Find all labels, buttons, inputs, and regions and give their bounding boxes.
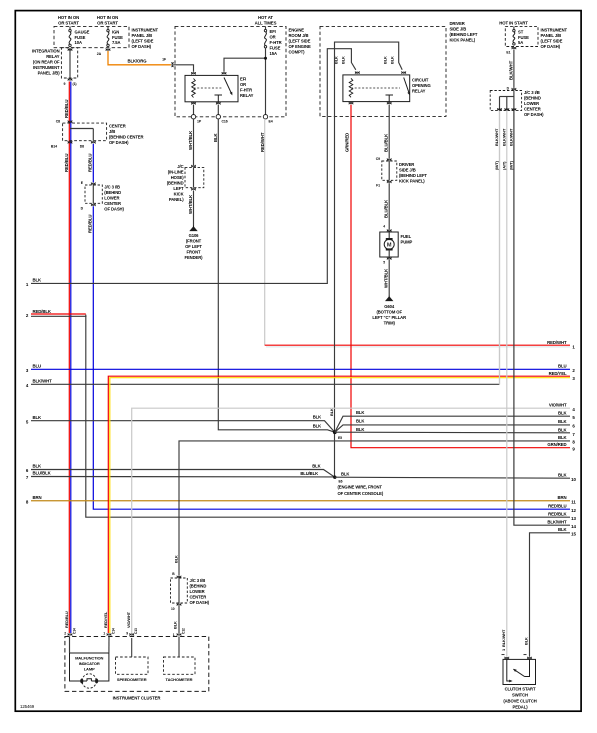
svg-text:FRONT: FRONT bbox=[187, 250, 201, 255]
MIL lamp symbol bbox=[80, 674, 98, 688]
label FUEL PUMP bbox=[401, 234, 413, 245]
svg-text:(BEHIND: (BEHIND bbox=[167, 181, 184, 186]
svg-text:5: 5 bbox=[383, 261, 385, 265]
svg-text:BLK: BLK bbox=[341, 56, 346, 64]
svg-text:OR START: OR START bbox=[58, 21, 79, 26]
svg-text:BLU: BLU bbox=[558, 364, 567, 369]
label G604 (BOTTOM OF LEFT C PILLAR TRIM) bbox=[372, 304, 406, 326]
label 1 BLK/WHT at clutch switch bbox=[501, 629, 506, 651]
wire BLK (splice E6 to right edge wire 10) bbox=[335, 477, 570, 478]
pin connector circuit relay switch bottom bbox=[387, 102, 391, 105]
svg-text:BLK: BLK bbox=[334, 56, 339, 64]
component: clutch start switch box bbox=[503, 659, 536, 684]
label INSTRUMENT PANEL J/B (LEFT SIDE OF DASH) bbox=[132, 28, 159, 50]
svg-text:OF DASH): OF DASH) bbox=[104, 207, 124, 212]
svg-text:PUMP: PUMP bbox=[401, 240, 413, 245]
splice E5 branch to right wire 5 bbox=[335, 416, 570, 432]
svg-text:J/C 3 I/B: J/C 3 I/B bbox=[104, 185, 120, 190]
svg-text:(LEFT SIDE: (LEFT SIDE bbox=[541, 39, 563, 44]
svg-text:INSTRUMENT: INSTRUMENT bbox=[33, 65, 60, 70]
wire VIO/WHT (right edge wire 4 to cluster speedometer) bbox=[132, 408, 570, 633]
svg-text:M: M bbox=[387, 243, 392, 249]
svg-text:RED/YEL: RED/YEL bbox=[549, 371, 567, 376]
right wire 11 BRN terminal bbox=[557, 495, 576, 505]
svg-text:G604: G604 bbox=[384, 304, 395, 309]
svg-text:RED/WHT: RED/WHT bbox=[547, 340, 567, 345]
fuse EFI 15A symbol bbox=[264, 26, 266, 48]
bus inside right J/C bbox=[500, 91, 514, 111]
svg-text:E6: E6 bbox=[339, 480, 343, 484]
pin C9 small J/B top bbox=[376, 157, 392, 161]
svg-text:LOWER: LOWER bbox=[190, 589, 205, 594]
fuel pump motor symbol bbox=[384, 232, 394, 257]
label J/C 3 I/B (BEHIND LOWER CENTER OF DASH) right bbox=[524, 90, 544, 117]
pin E J/C top bbox=[81, 181, 96, 185]
svg-text:BLK: BLK bbox=[33, 278, 43, 283]
connector circle engine J/B bottom 1 bbox=[191, 115, 195, 119]
pin connector cluster tachometer bbox=[177, 628, 186, 636]
ground G106 bbox=[189, 226, 197, 232]
label BLK right wire 6 mid bbox=[356, 419, 364, 424]
label 1 RED/YEL at cluster bbox=[103, 611, 108, 635]
svg-text:SIDE J/B: SIDE J/B bbox=[399, 168, 416, 173]
EFI relay internal dashed link bbox=[194, 87, 223, 89]
svg-text:B14: B14 bbox=[51, 145, 57, 149]
svg-text:ALL TIMES: ALL TIMES bbox=[255, 21, 277, 26]
svg-text:EFI: EFI bbox=[270, 29, 276, 34]
svg-text:TACHOMETER: TACHOMETER bbox=[166, 677, 193, 682]
wire RED/YEL (right edge wire 3 to cluster MIL) bbox=[108, 376, 570, 633]
svg-text:INSTRUMENT: INSTRUMENT bbox=[132, 28, 159, 33]
svg-text:LEFT “C” PILLAR: LEFT “C” PILLAR bbox=[372, 315, 406, 320]
svg-text:BLK: BLK bbox=[356, 410, 364, 415]
svg-text:LOWER: LOWER bbox=[104, 196, 119, 201]
svg-text:(ABOVE CLUTCH: (ABOVE CLUTCH bbox=[503, 699, 536, 704]
label HOT AT ALL TIMES bbox=[255, 15, 277, 25]
svg-text:4: 4 bbox=[383, 225, 385, 229]
svg-text:COMPT): COMPT) bbox=[289, 50, 306, 55]
svg-text:(LEFT SIDE: (LEFT SIDE bbox=[132, 39, 154, 44]
svg-text:BLK/WHT: BLK/WHT bbox=[509, 128, 514, 146]
svg-text:OPENING: OPENING bbox=[412, 83, 431, 88]
wire RED/BLU (center J/B to J/C) bbox=[92, 144, 94, 183]
relay: EFI OR F-HTR RELAY box bbox=[185, 75, 238, 101]
node branch inside center J/B bbox=[70, 129, 93, 141]
svg-text:BLK: BLK bbox=[558, 527, 568, 532]
svg-text:DRIVER: DRIVER bbox=[399, 162, 414, 167]
circuit opening relay switch contact bbox=[386, 78, 412, 102]
junction block: instrument panel J/B (ST fuse) bbox=[505, 26, 538, 46]
label RED/WHT (below EFI fuse) bbox=[260, 132, 265, 152]
svg-text:RED/YEL: RED/YEL bbox=[103, 611, 108, 628]
splice E6 node bbox=[333, 476, 343, 484]
svg-text:RED/BLU: RED/BLU bbox=[64, 154, 69, 172]
pin labels 9 (1) bbox=[64, 82, 77, 86]
wire BLK/WHT (ST fuse to right J/C) bbox=[513, 49, 515, 88]
component: instrument cluster box bbox=[65, 637, 209, 692]
svg-text:ENGINE: ENGINE bbox=[289, 28, 305, 33]
svg-text:(LEFT SIDE: (LEFT SIDE bbox=[289, 39, 311, 44]
label DRIVER SIDE J/B (BEHIND LEFT KICK PANEL) small bbox=[399, 162, 427, 184]
label WHT/BLK (upper) bbox=[188, 130, 193, 150]
svg-text:LEFT: LEFT bbox=[173, 186, 184, 191]
label BLK above A/C J/C bbox=[174, 555, 179, 563]
svg-text:(M/T): (M/T) bbox=[509, 160, 514, 170]
wire BLK feed A (wire1 riser to relay coil) bbox=[327, 49, 356, 117]
svg-text:9: 9 bbox=[64, 82, 66, 86]
svg-text:BLK/WHT: BLK/WHT bbox=[494, 128, 499, 146]
svg-text:GAUGE: GAUGE bbox=[75, 30, 90, 35]
svg-text:OR START: OR START bbox=[97, 21, 118, 26]
svg-text:BLK: BLK bbox=[558, 435, 568, 440]
pin 10 bottom J/C bottom bbox=[171, 603, 181, 611]
svg-text:HOT AT: HOT AT bbox=[258, 15, 273, 20]
svg-text:RED/BLU: RED/BLU bbox=[64, 100, 69, 118]
label CLUTCH START SWITCH (ABOVE CLUTCH PEDAL) bbox=[503, 687, 536, 710]
junction block: engine room J/B bbox=[175, 26, 286, 116]
label EFI OR F-HTR RELAY bbox=[240, 77, 254, 99]
svg-text:C8: C8 bbox=[56, 120, 60, 124]
svg-text:BLK: BLK bbox=[558, 472, 568, 477]
wires pins to MIL box bbox=[70, 637, 110, 654]
svg-text:BLK: BLK bbox=[213, 132, 218, 142]
wire inside small J/B bbox=[388, 161, 390, 180]
svg-text:INSTRUMENT: INSTRUMENT bbox=[541, 28, 568, 33]
svg-text:OF DASH): OF DASH) bbox=[190, 600, 210, 605]
svg-text:BLK: BLK bbox=[33, 415, 43, 420]
EFI relay switch contact bbox=[215, 78, 234, 102]
svg-text:PANEL J/B: PANEL J/B bbox=[132, 33, 153, 38]
wire BLK (J/C to cluster) bbox=[178, 606, 180, 633]
svg-text:5A: 5A bbox=[518, 40, 523, 45]
svg-text:10: 10 bbox=[571, 477, 576, 482]
right wire 1 RED/WHT terminal bbox=[547, 340, 575, 350]
label RED/BLU (upper) bbox=[64, 100, 69, 118]
svg-text:INDICATOR: INDICATOR bbox=[79, 661, 100, 666]
pin connector fuel pump bottom bbox=[383, 257, 391, 264]
svg-text:BLK: BLK bbox=[558, 419, 568, 424]
right wire 12 RED/BLU terminal bbox=[548, 503, 576, 513]
svg-text:PEDAL): PEDAL) bbox=[513, 705, 529, 710]
svg-text:HOSE): HOSE) bbox=[171, 175, 184, 180]
svg-text:HOT IN START: HOT IN START bbox=[499, 21, 528, 26]
svg-text:F-HTR: F-HTR bbox=[270, 40, 282, 45]
svg-text:15A: 15A bbox=[270, 51, 277, 56]
circuit opening relay dashed link bbox=[351, 87, 400, 89]
label J/C 3 I/B (BEHIND LOWER CENTER OF DASH) bbox=[104, 185, 124, 212]
label GRN/RED bbox=[345, 133, 350, 152]
svg-text:BLU/BLK: BLU/BLK bbox=[33, 471, 52, 476]
label HOT IN ON OR START (gauge fuse) bbox=[58, 15, 80, 25]
svg-text:OF CENTER CONSOLE): OF CENTER CONSOLE) bbox=[338, 491, 384, 496]
svg-text:FUSE: FUSE bbox=[518, 35, 529, 40]
svg-text:PANEL): PANEL) bbox=[169, 197, 184, 202]
svg-text:BLK/WHT: BLK/WHT bbox=[547, 519, 567, 524]
svg-text:(IN-LINE: (IN-LINE bbox=[168, 170, 184, 175]
svg-text:MALFUNCTION: MALFUNCTION bbox=[75, 656, 103, 661]
svg-text:CIRCUIT: CIRCUIT bbox=[412, 78, 429, 83]
wire inside J/C bbox=[92, 185, 94, 203]
wire 6 BLK (left edge to splice E6) bbox=[26, 464, 335, 478]
svg-text:BLK/WHT: BLK/WHT bbox=[501, 128, 506, 146]
svg-text:BLK: BLK bbox=[558, 410, 568, 415]
svg-text:BLK/ORG: BLK/ORG bbox=[127, 58, 147, 63]
svg-text:10A: 10A bbox=[75, 40, 82, 45]
svg-text:J/C: J/C bbox=[177, 164, 183, 169]
svg-text:C14: C14 bbox=[112, 628, 116, 634]
wire inside integration relay bbox=[69, 48, 71, 78]
pin connector integration relay output bbox=[68, 78, 72, 81]
relay: circuit opening relay box bbox=[343, 75, 410, 102]
label BLK before splice on wire 6 bbox=[312, 464, 320, 469]
label BLU/BLK (upper) bbox=[384, 133, 389, 152]
svg-text:GRN/RED: GRN/RED bbox=[547, 442, 566, 447]
svg-text:WHT/BLK: WHT/BLK bbox=[188, 194, 193, 214]
svg-text:CENTER: CENTER bbox=[524, 107, 541, 112]
svg-text:J/C 3 I/B: J/C 3 I/B bbox=[190, 578, 206, 583]
svg-text:HOT IN ON: HOT IN ON bbox=[97, 15, 118, 20]
diagram id text bbox=[20, 704, 35, 709]
svg-text:KICK: KICK bbox=[174, 192, 184, 197]
svg-text:RED/BLU: RED/BLU bbox=[88, 154, 93, 172]
label HOT IN START bbox=[499, 21, 528, 26]
svg-text:OF ENGINE: OF ENGINE bbox=[289, 44, 311, 49]
svg-text:BLU: BLU bbox=[33, 364, 42, 369]
svg-text:2A: 2A bbox=[97, 52, 102, 56]
right wire 3 RED/YEL terminal bbox=[549, 371, 576, 381]
junction connector J/C (left, on RED/BLU) bbox=[85, 185, 102, 203]
label 1 BLK at cluster bbox=[173, 621, 178, 637]
svg-text:FUSE: FUSE bbox=[75, 35, 86, 40]
label BLU/BLK before splice E6 bbox=[300, 471, 318, 476]
wire BLK (right edge wire 8 to instrument cluster tachometer) bbox=[179, 441, 570, 576]
svg-text:OF DASH): OF DASH) bbox=[541, 44, 561, 49]
labels BLK/WHT x3 below right J/C bbox=[494, 128, 514, 146]
pin D8 center J/B bottom right bbox=[80, 141, 96, 149]
junction block: driver side J/B bbox=[320, 26, 446, 116]
wire RED/WHT vertical (EFI fuse to corner) bbox=[264, 119, 266, 345]
junction connector driver side J/B (small) bbox=[382, 161, 397, 180]
svg-text:11: 11 bbox=[571, 500, 576, 505]
wire 1 BLK (left edge to circuit opening relay) bbox=[26, 116, 327, 287]
svg-text:D8: D8 bbox=[80, 145, 84, 149]
svg-text:TRIM): TRIM) bbox=[384, 321, 396, 326]
pin connector cluster MIL left bbox=[68, 628, 77, 636]
svg-text:BLK: BLK bbox=[356, 427, 364, 432]
svg-text:RED/BLK: RED/BLK bbox=[33, 309, 52, 314]
svg-text:(BEHIND LEFT: (BEHIND LEFT bbox=[399, 173, 427, 178]
junction connector J/C in-line (behind left kick panel) bbox=[185, 168, 204, 188]
svg-text:RED/BLK: RED/BLK bbox=[548, 511, 567, 516]
pin C8 center J/B top bbox=[56, 120, 72, 124]
wire BLK (EFI relay to splice E5) bbox=[218, 119, 334, 432]
svg-text:OR: OR bbox=[240, 82, 246, 87]
clutch switch internals bbox=[502, 655, 530, 683]
svg-text:(BEHIND: (BEHIND bbox=[524, 96, 541, 101]
svg-text:BLK: BLK bbox=[173, 621, 178, 629]
label BLK above splice E5 bbox=[329, 408, 334, 416]
svg-text:F-HTR: F-HTR bbox=[240, 88, 252, 93]
right wire 5 BLK terminal bbox=[558, 410, 575, 420]
splice E5 branch to right wire 7 bbox=[335, 431, 570, 434]
svg-text:E5: E5 bbox=[338, 436, 342, 440]
svg-text:INTEGRATION: INTEGRATION bbox=[32, 49, 60, 54]
pin connector clutch switch left bbox=[505, 657, 509, 660]
pin connector ign fuse output bbox=[106, 48, 110, 51]
pin connector gauge fuse to integration relay bbox=[68, 48, 72, 51]
wire 2 RED/BLK (left edge to right edge wire 13) bbox=[26, 309, 570, 517]
label IGN FUSE 7.5A bbox=[112, 30, 123, 46]
svg-text:CENTER: CENTER bbox=[104, 201, 121, 206]
pin connector EFI relay coil bottom bbox=[191, 102, 195, 105]
label RED/BLU on left branch bbox=[64, 154, 69, 172]
svg-text:IGN: IGN bbox=[112, 30, 119, 35]
wire EFI fuse to relay and bottom connector bbox=[224, 48, 267, 116]
label BLK/ORG bbox=[127, 58, 147, 63]
pin labels engine J/B bottom bbox=[197, 120, 273, 124]
svg-text:BLK: BLK bbox=[558, 428, 568, 433]
label DRIVER SIDE J/B (BEHIND LEFT KICK PANEL) bbox=[450, 21, 478, 43]
svg-text:(BEHIND LEFT: (BEHIND LEFT bbox=[450, 32, 478, 37]
svg-text:CLUTCH START: CLUTCH START bbox=[505, 687, 536, 692]
wire 3 BLU (left edge to right edge wire 2) bbox=[26, 364, 570, 373]
svg-text:E1: E1 bbox=[506, 51, 510, 55]
pin 2A at ign fuse output bbox=[97, 52, 102, 56]
label ST FUSE 5A bbox=[518, 30, 529, 46]
svg-text:SIDE J/B: SIDE J/B bbox=[450, 27, 467, 32]
label BLK (before splice) bbox=[313, 423, 321, 428]
svg-text:OF DASH): OF DASH) bbox=[109, 140, 129, 145]
connector circle engine J/B bottom 2 bbox=[216, 115, 220, 119]
svg-text:7.5A: 7.5A bbox=[112, 40, 121, 45]
component: tachometer box bbox=[164, 657, 196, 674]
circuit opening relay coil bbox=[349, 78, 353, 97]
svg-text:BLK: BLK bbox=[356, 419, 364, 424]
pin connector EFI relay switch bottom bbox=[216, 102, 220, 105]
relay: integration relay box bbox=[61, 48, 77, 78]
label GAUGE FUSE 10A bbox=[75, 30, 90, 46]
svg-text:BLU/BLK: BLU/BLK bbox=[384, 133, 389, 152]
svg-text:DRIVER: DRIVER bbox=[450, 21, 465, 26]
label J/C (BEHIND LEFT KICK PANEL) bbox=[167, 164, 184, 202]
label CENTER J/B (BEHIND CENTER OF DASH) bbox=[109, 124, 144, 146]
label CIRCUIT OPENING RELAY bbox=[412, 78, 431, 94]
svg-text:(BEHIND CENTER: (BEHIND CENTER bbox=[109, 135, 144, 140]
svg-text:(BOTTOM OF: (BOTTOM OF bbox=[376, 310, 402, 315]
labels BLK BLK at relay coil feed bbox=[334, 56, 346, 64]
label INSTRUMENT PANEL J/B (LEFT SIDE OF DASH) right bbox=[541, 28, 568, 50]
svg-text:C9: C9 bbox=[376, 157, 380, 161]
label HOT IN ON OR START (ign fuse) bbox=[97, 15, 119, 25]
svg-text:14: 14 bbox=[571, 524, 576, 529]
label INTEGRATION RELAY (ON REAR OF INSTRUMENT PANEL J/B) bbox=[32, 49, 60, 76]
right wire 7 BLK terminal bbox=[558, 428, 575, 438]
svg-text:1 BLK/WHT: 1 BLK/WHT bbox=[501, 629, 506, 651]
wire 5 BLK (left edge to splice E5) bbox=[26, 415, 335, 432]
svg-text:KICK PANEL): KICK PANEL) bbox=[399, 179, 425, 184]
connector circle engine J/B bottom 3 bbox=[263, 115, 267, 119]
pin connector fuel pump top bbox=[383, 225, 391, 232]
right wire 9 GRN/RED terminal bbox=[547, 442, 575, 452]
svg-text:(ON REAR OF: (ON REAR OF bbox=[33, 60, 60, 65]
pin B bottom J/C top bbox=[172, 572, 181, 578]
label BLK before splice on wire 5 bbox=[313, 415, 321, 420]
label MALFUNCTION INDICATOR LAMP bbox=[75, 656, 103, 672]
svg-text:(BEHIND: (BEHIND bbox=[104, 190, 121, 195]
label BLK (below relay) bbox=[213, 132, 218, 142]
fuse IGN 7.5A symbol bbox=[107, 26, 109, 46]
label J/C 3 I/B (BEHIND LOWER CENTER OF DASH) bottom bbox=[190, 578, 210, 605]
svg-text:BLK: BLK bbox=[524, 637, 529, 645]
svg-text:EFI: EFI bbox=[240, 77, 246, 82]
svg-text:FUSE: FUSE bbox=[112, 35, 123, 40]
svg-text:PANEL J/B: PANEL J/B bbox=[541, 33, 562, 38]
label SPEEDOMETER bbox=[117, 677, 147, 682]
svg-text:OF LEFT: OF LEFT bbox=[185, 244, 202, 249]
svg-text:ROOM J/B: ROOM J/B bbox=[289, 33, 309, 38]
pin connector clutch switch right bbox=[527, 657, 531, 660]
pin E1 ST fuse output bbox=[506, 47, 516, 55]
svg-text:HOT IN ON: HOT IN ON bbox=[58, 15, 79, 20]
svg-text:C14: C14 bbox=[73, 628, 77, 634]
svg-text:2: 2 bbox=[64, 632, 66, 636]
svg-text:BLK: BLK bbox=[313, 423, 321, 428]
wire WHT/BLK (fuel pump to ground) bbox=[388, 260, 390, 296]
svg-text:RELAY: RELAY bbox=[46, 54, 60, 59]
component: fuel pump box bbox=[380, 232, 398, 257]
svg-text:SWITCH: SWITCH bbox=[512, 693, 528, 698]
label BLU/BLK (lower) bbox=[384, 199, 389, 218]
fuse GAUGE 10A symbol bbox=[69, 26, 71, 46]
wire 8 BRN (left edge to right edge wire 11) bbox=[26, 495, 570, 504]
svg-text:BLK: BLK bbox=[312, 464, 320, 469]
splice E5 node bbox=[333, 430, 342, 439]
svg-text:PANEL J/B): PANEL J/B) bbox=[38, 71, 61, 76]
svg-text:13: 13 bbox=[571, 516, 576, 521]
svg-text:WHT/BLK: WHT/BLK bbox=[384, 268, 389, 288]
right wire 15 BLK terminal bbox=[558, 527, 577, 537]
svg-text:1: 1 bbox=[103, 632, 105, 636]
label G106 (FRONT OF LEFT FRONT FENDER) bbox=[185, 233, 204, 260]
wire 4 BLK/WHT (left edge to right J/C) bbox=[26, 111, 500, 388]
svg-text:C16: C16 bbox=[222, 120, 228, 124]
svg-text:VIO/WHT: VIO/WHT bbox=[126, 611, 131, 628]
label TACHOMETER bbox=[166, 677, 193, 682]
wire GRN/RED (relay coil to right edge wire 9) bbox=[351, 105, 570, 448]
EFI relay coil bbox=[192, 79, 196, 98]
svg-text:RED/BLU: RED/BLU bbox=[88, 215, 93, 233]
junction connector J/C 3 I/B (right) bbox=[490, 91, 521, 111]
pin connectors right J/C bottom bbox=[497, 108, 516, 111]
svg-text:BLK: BLK bbox=[341, 471, 349, 476]
wire relay pins to J/B edge bbox=[194, 105, 219, 117]
pin connector EFI relay coil top bbox=[191, 72, 195, 75]
right wire 13 RED/BLK terminal bbox=[548, 511, 576, 521]
svg-text:BLK: BLK bbox=[383, 56, 388, 64]
pin connector circuit relay coil bottom bbox=[349, 102, 353, 105]
svg-text:CENTER: CENTER bbox=[109, 124, 126, 129]
splice E5 branch to right wire 6 bbox=[335, 425, 570, 432]
ground G604 bbox=[385, 296, 393, 302]
svg-text:BLK/WHT: BLK/WHT bbox=[508, 60, 513, 80]
wire BLK into tachometer bbox=[178, 637, 180, 658]
svg-text:ST: ST bbox=[518, 30, 524, 35]
label INSTRUMENT CLUSTER bbox=[113, 696, 162, 701]
wire BLK feed B (splice riser to relay switch) bbox=[335, 42, 403, 116]
wire WHT/BLK (J/C to ground G106) bbox=[193, 191, 195, 226]
pin F1 small J/B bottom bbox=[376, 181, 391, 188]
svg-text:KICK PANEL): KICK PANEL) bbox=[450, 38, 476, 43]
